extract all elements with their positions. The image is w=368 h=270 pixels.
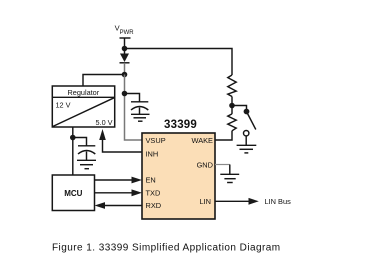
- ground: C1: [131, 114, 150, 121]
- node: WAKE junction: [229, 103, 235, 109]
- wire: LIN to LIN Bus (arrow right): [215, 197, 291, 206]
- net VPWR label: [115, 24, 135, 36]
- svg-text:GND: GND: [197, 160, 213, 169]
- svg-text:INH: INH: [146, 150, 159, 159]
- wire: R2 to WAKE pin: [215, 131, 232, 140]
- node: 5V junction: [70, 135, 76, 141]
- svg-text:RXD: RXD: [146, 201, 162, 210]
- ground: GND pin: [220, 174, 239, 182]
- MCU block: [52, 175, 94, 211]
- ground: switch: [237, 145, 257, 153]
- wire: RXD to MCU (arrow left): [95, 202, 143, 209]
- svg-text:Regulator: Regulator: [68, 88, 100, 97]
- switch S1: [232, 106, 256, 146]
- node: VPWR junction: [122, 46, 128, 52]
- wire: TXD from MCU (arrow right): [95, 189, 143, 196]
- wire: INH to regulator enable (arrow up): [99, 129, 142, 152]
- capacitor C2: [73, 138, 96, 161]
- node: VSUP rail junction: [122, 91, 128, 97]
- svg-text:LIN: LIN: [199, 197, 211, 206]
- VPWR terminal: [120, 38, 131, 49]
- node: diode cathode junction: [122, 72, 128, 78]
- wire: EN from MCU (arrow right): [95, 177, 143, 184]
- svg-text:5.0 V: 5.0 V: [96, 118, 113, 127]
- svg-text:WAKE: WAKE: [192, 136, 214, 145]
- ground: C2: [77, 160, 96, 168]
- svg-text:TXD: TXD: [146, 188, 161, 197]
- diode D1: [120, 49, 130, 75]
- resistor R1: [228, 75, 236, 106]
- wire: regulator 5V output rail: [72, 127, 74, 175]
- wire: to regulator input: [83, 75, 125, 87]
- capacitor C1: [125, 94, 149, 115]
- svg-text:MCU: MCU: [64, 189, 82, 198]
- svg-text:LIN Bus: LIN Bus: [265, 197, 292, 206]
- svg-text:33399: 33399: [164, 119, 197, 131]
- IC U1 33399: [142, 119, 215, 219]
- svg-text:12 V: 12 V: [56, 101, 71, 110]
- svg-text:EN: EN: [146, 176, 156, 185]
- wire: GND pin to ground: [215, 165, 230, 175]
- wire: top rail to pull-up branch: [125, 49, 233, 76]
- svg-text:VSUP: VSUP: [146, 136, 166, 145]
- regulator block: [52, 86, 114, 127]
- resistor R2: [228, 106, 236, 131]
- wire: main rail down to VSUP pin: [125, 75, 143, 141]
- svg-text:PWR: PWR: [120, 30, 135, 36]
- svg-text:Figure 1. 33399 Simplified App: Figure 1. 33399 Simplified Application D…: [52, 243, 281, 254]
